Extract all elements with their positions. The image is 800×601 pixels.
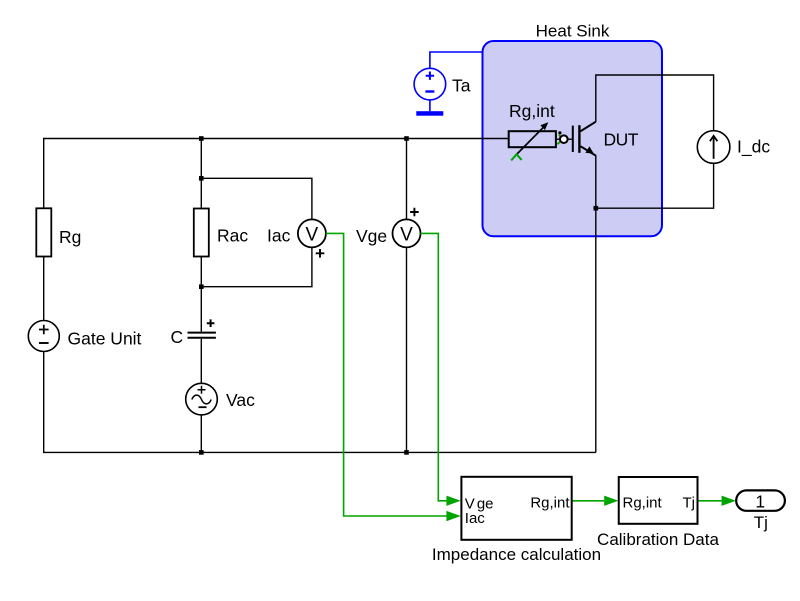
svg-text:Iac: Iac <box>465 510 486 527</box>
svg-text:Vge: Vge <box>356 226 387 246</box>
svg-text:Impedance calculation: Impedance calculation <box>432 545 601 564</box>
svg-text:DUT: DUT <box>604 130 639 150</box>
svg-text:Tj: Tj <box>754 513 768 532</box>
svg-text:Rg: Rg <box>59 227 81 247</box>
svg-text:V: V <box>306 224 319 245</box>
svg-text:Calibration Data: Calibration Data <box>597 530 719 549</box>
svg-text:Ta: Ta <box>452 76 471 96</box>
svg-text:Rac: Rac <box>217 226 248 246</box>
svg-text:Vac: Vac <box>226 390 255 410</box>
svg-text:1: 1 <box>755 492 765 512</box>
svg-text:Rg,int: Rg,int <box>530 494 570 511</box>
svg-text:Rg,int: Rg,int <box>623 494 663 511</box>
svg-text:C: C <box>171 327 184 347</box>
svg-text:Heat Sink: Heat Sink <box>536 22 610 41</box>
svg-text:Rg,int: Rg,int <box>509 101 555 121</box>
svg-text:V: V <box>400 224 413 245</box>
svg-text:I_dc: I_dc <box>737 137 770 158</box>
svg-text:Gate Unit: Gate Unit <box>68 329 142 349</box>
svg-text:Tj: Tj <box>683 494 696 511</box>
svg-text:Iac: Iac <box>267 226 291 246</box>
